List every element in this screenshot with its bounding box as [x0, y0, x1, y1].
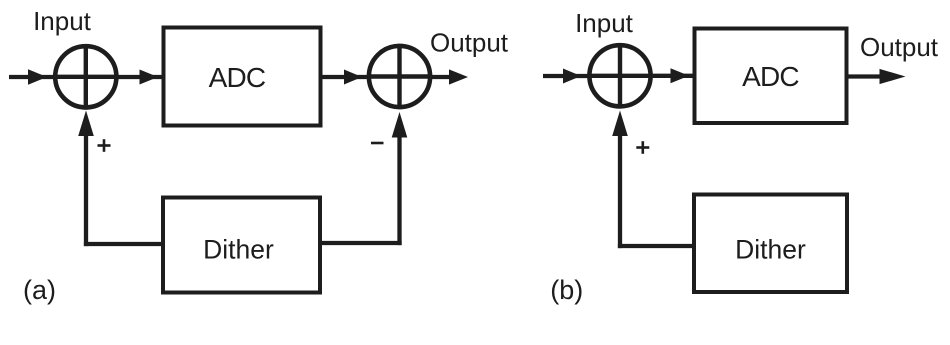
svg-text:ADC: ADC — [742, 61, 799, 92]
plus sign at S3 (b) — [636, 141, 649, 154]
summing junction S2 (a) — [367, 44, 432, 109]
wire dither horizontal right (a) — [322, 241, 402, 245]
svg-text:ADC: ADC — [209, 62, 266, 93]
arrowhead dither into S1 (a) — [78, 111, 94, 137]
wire S3 to ADC (b) — [653, 74, 693, 78]
wire dither riser to S1 (a) — [84, 122, 88, 246]
summing junction S3 (b) — [587, 43, 652, 108]
wire ADC to S2 (a) — [323, 75, 367, 79]
arrowhead output (a) — [449, 69, 468, 84]
arrowhead into ADC (a) — [140, 70, 159, 85]
arrowhead output (b) — [880, 69, 906, 84]
wire input (b) — [543, 74, 588, 78]
wire dither riser to S3 (b) — [618, 122, 622, 248]
wire S1 to ADC (a) — [118, 75, 162, 79]
arrowhead dither into S3 (b) — [612, 111, 628, 137]
wire input (a) — [9, 75, 53, 79]
plus sign at S1 (a) — [98, 139, 111, 152]
arrowhead into ADC (b) — [671, 68, 690, 83]
wire dither horizontal left (a) — [84, 242, 162, 246]
svg-text:Output: Output — [860, 32, 939, 62]
ADC box (b) — [695, 29, 847, 124]
summing junction S1 (a) — [53, 44, 119, 110]
svg-text:(a): (a) — [23, 275, 56, 305]
svg-text:Input: Input — [33, 6, 92, 36]
svg-text:Dither: Dither — [203, 235, 274, 265]
wire dither riser to S2 (a) — [397, 123, 401, 245]
wire dither horizontal (b) — [618, 244, 692, 248]
svg-text:Input: Input — [575, 8, 634, 38]
Dither box (a) — [163, 198, 320, 293]
minus sign at S2 (a) — [371, 142, 384, 145]
output wire (b) — [849, 74, 883, 78]
arrowhead input (a) — [28, 69, 47, 84]
ADC box (a) — [164, 28, 321, 126]
output wire (a) — [432, 75, 452, 79]
arrowhead dither into S2 (a) — [392, 112, 408, 138]
arrowhead into S2 (a) — [344, 70, 362, 85]
arrowhead input (b) — [563, 69, 581, 84]
svg-text:Output: Output — [430, 28, 509, 58]
svg-text:Dither: Dither — [735, 235, 806, 265]
Dither box (b) — [694, 195, 847, 293]
svg-text:(b): (b) — [550, 275, 583, 305]
